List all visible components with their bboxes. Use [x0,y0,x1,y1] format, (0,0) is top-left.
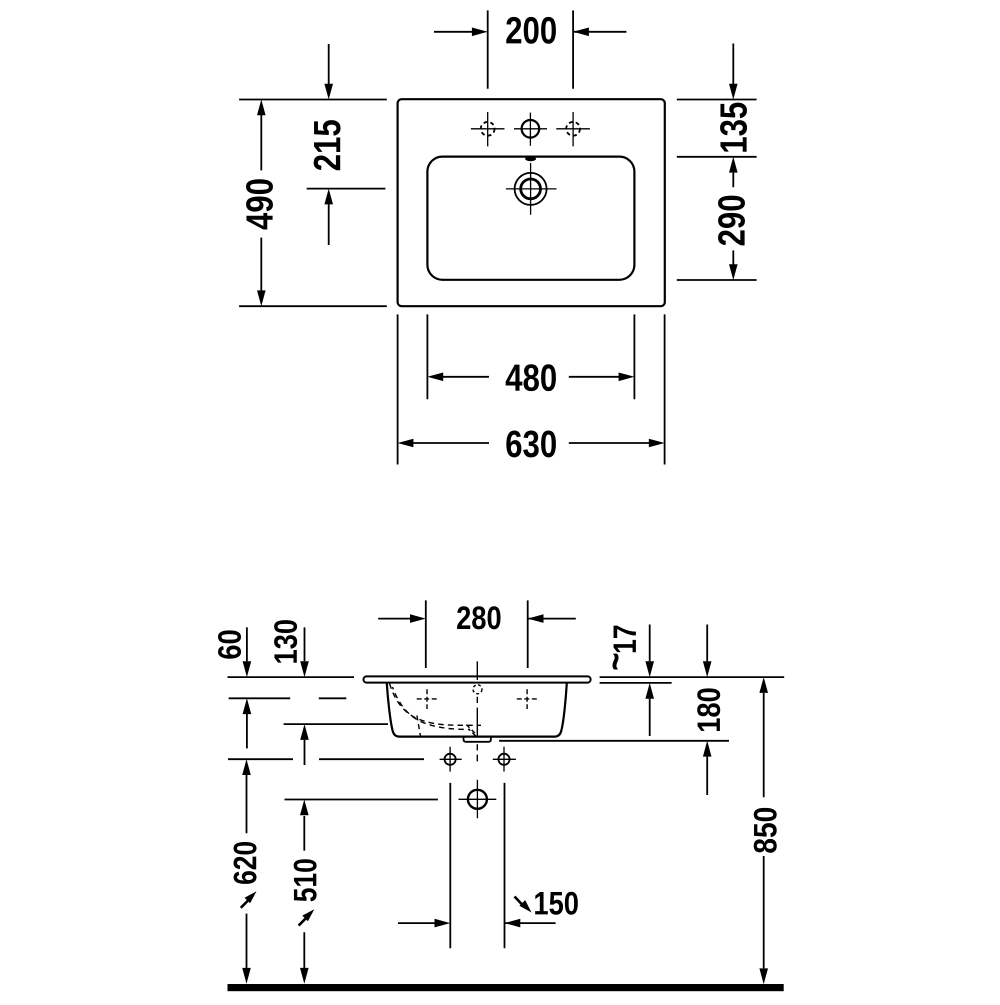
dim 180 arrows [706,625,708,796]
faucet hole left (front, hidden cross) [417,689,437,709]
dim 200 line + arrows [434,31,626,33]
dim 180 label [697,688,720,731]
dim 490 label [246,179,273,229]
ceramic rim bar (front view) [364,676,591,682]
dim ~17 arrows [649,625,651,737]
rim bottom level line (right) [600,682,672,684]
interior hidden contour (dashed curve 2) [393,687,471,730]
drain hole (front view) [468,790,487,809]
dim 480 label [506,364,556,391]
dim 60 label [218,630,241,658]
dim 510 leader arrow [299,917,307,925]
basin interior bottom level line (left) [284,723,388,725]
faucet hole left (dashed) [481,122,495,136]
dim 490 line + arrows [260,115,262,291]
faucet hole right (dashed) [566,122,580,136]
floor line [228,984,784,991]
dim 150 leader arrow [515,897,523,906]
dim 280 label [457,606,500,629]
dim 215 label [314,120,341,170]
dim 60 arrows [246,627,248,748]
basin inner rim (top view) [427,157,634,280]
faucet hole center (top view) [522,120,540,138]
dim 620 line + arrows [246,775,248,968]
dim 130 label [274,620,297,663]
overflow slot [525,157,536,162]
rim top level line (left) [228,676,355,678]
dim 215 arrows [328,44,330,245]
vertical centerline (dash-dot) [476,661,478,761]
dim 510 label [294,859,317,901]
fixing hole left (front view) [445,754,456,765]
dim 290 line + arrows [732,173,734,265]
dim 150 line + arrows [398,922,556,924]
interior sump hidden edge [417,716,421,737]
dim 850 line + arrows [763,693,765,968]
drain crosshair [506,163,557,215]
dim 130 arrows [304,627,306,765]
drain inner circle [521,179,541,199]
dim 290 label [718,196,745,246]
interior hidden contour (dashed curve 1) [390,684,482,726]
drain level line [285,799,438,801]
dim 630 extension lines [398,314,665,464]
faucet hole level line (left) [229,697,347,699]
dim 630 label [506,430,556,457]
drain outer circle [515,173,547,205]
dim 135 extension lines [677,100,757,157]
dim 480 line + arrows [443,376,619,378]
drain slope hidden lines [466,725,475,734]
basin body outline (front view) [387,683,567,737]
dim 200 label [506,17,556,44]
dim 150 extension lines [450,783,504,948]
dim 215 reference line (drain level) [307,188,386,190]
dim 280 line + arrows [378,618,576,620]
dim 290 extension line (basin bottom level) [677,279,757,281]
fixing hole level line [228,758,424,760]
dim 490 extension lines (top + bottom of basin) [239,100,387,307]
dim 150 label [535,892,578,915]
basin underside level line (right) [499,740,729,742]
dim 510 line + arrows [303,816,305,968]
dim 620 label [234,842,257,884]
dim 135 label [720,103,747,152]
dim 850 label [754,808,777,853]
rim top level line (right) [600,676,785,678]
dim 135 arrows [732,44,734,85]
washbasin outer edge (top view) [398,99,665,306]
dim 630 line + arrows [413,442,649,444]
dim ~17 label [612,626,635,670]
faucet hole middle (front, hidden circle) [473,685,482,694]
fixing hole right (front view) [498,754,509,765]
dim 200 extension lines [488,10,573,88]
dim 620 leader arrow [241,900,249,908]
dim 480 extension lines [427,314,634,399]
faucet hole right (front, hidden cross) [517,689,537,709]
dim 280 extension lines [426,600,528,668]
siphon cover tab [464,737,491,742]
